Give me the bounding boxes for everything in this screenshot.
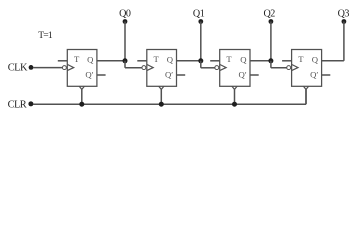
svg-text:Q: Q (240, 54, 247, 64)
svg-text:T: T (154, 54, 160, 64)
svg-text:Q1: Q1 (193, 8, 205, 19)
svg-text:Q′: Q′ (85, 69, 93, 79)
svg-text:Q′: Q′ (239, 69, 247, 79)
svg-text:Q2: Q2 (264, 8, 276, 19)
svg-text:Q3: Q3 (338, 8, 350, 19)
svg-text:CLR: CLR (8, 100, 27, 111)
svg-text:T: T (226, 54, 232, 64)
svg-text:T: T (74, 54, 80, 64)
svg-text:Q: Q (87, 54, 94, 64)
svg-text:Q′: Q′ (310, 69, 318, 79)
svg-text:Q0: Q0 (119, 8, 131, 19)
svg-text:Q: Q (312, 54, 319, 64)
svg-text:CLK: CLK (8, 63, 28, 74)
svg-text:Q: Q (167, 54, 174, 64)
svg-text:T: T (298, 54, 304, 64)
svg-text:Q′: Q′ (165, 69, 173, 79)
svg-text:T=1: T=1 (38, 30, 53, 41)
